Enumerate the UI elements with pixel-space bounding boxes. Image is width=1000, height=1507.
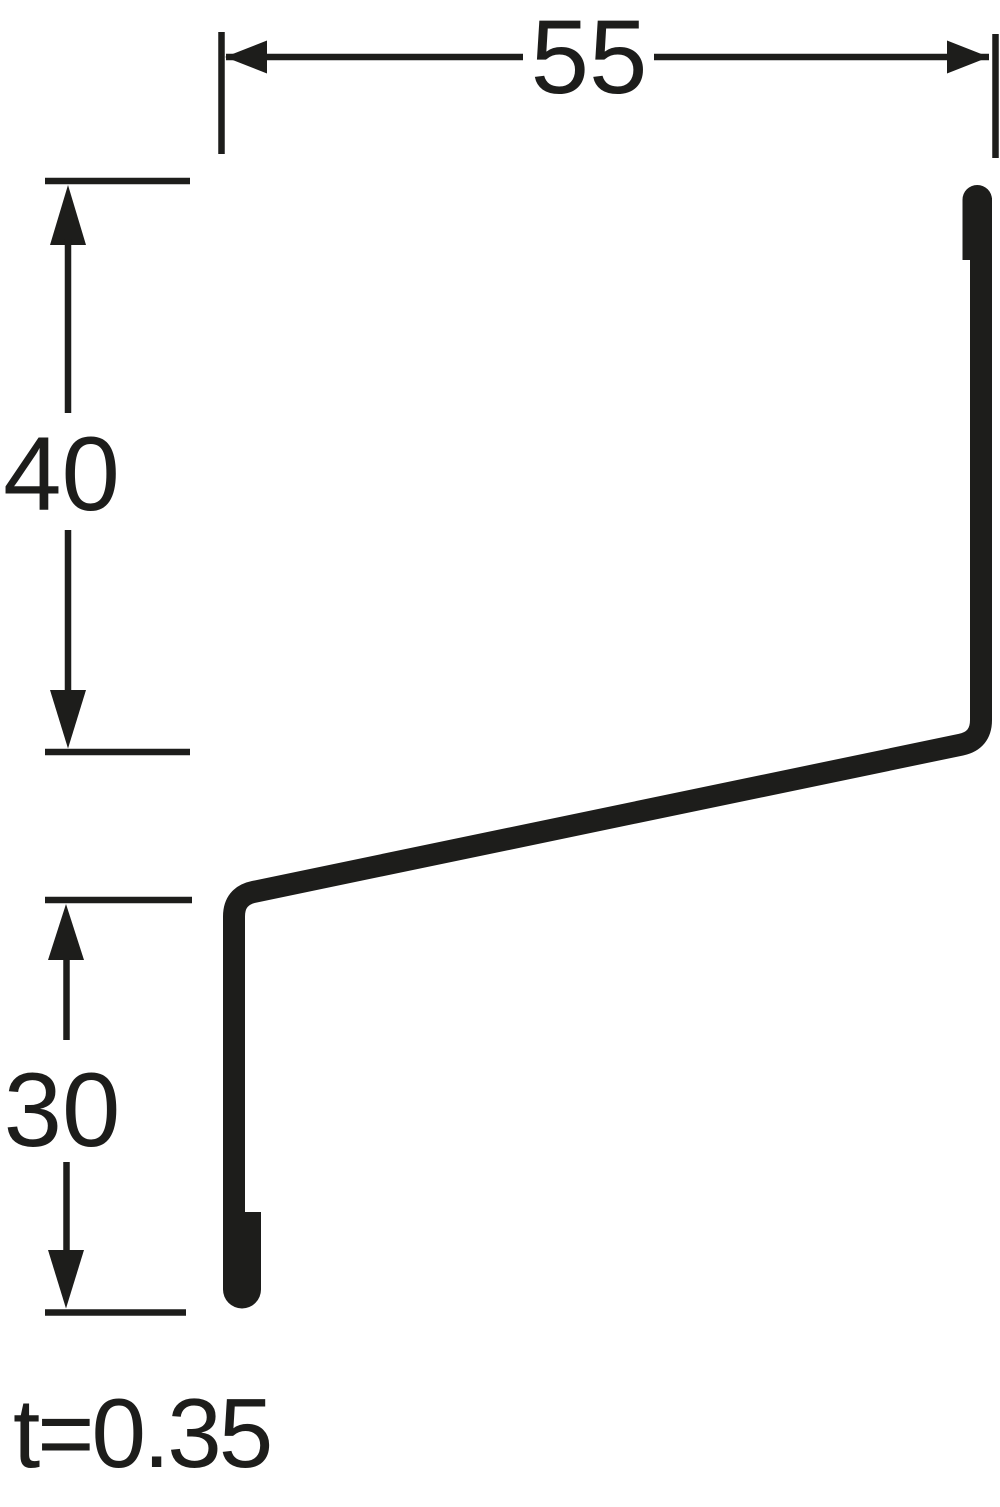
- arrowhead 40 down: [50, 690, 86, 749]
- tick bottom (30 dim): [45, 1309, 186, 1316]
- svg-text:t=0.35: t=0.35: [13, 1378, 270, 1488]
- dimension line 40 upper segment: [65, 239, 72, 413]
- dimension line 55 right segment: [654, 54, 989, 61]
- extension line left (55 dim): [218, 32, 225, 154]
- extension line right (55 dim): [992, 34, 999, 158]
- dimension line 40 lower segment: [65, 530, 72, 696]
- svg-text:30: 30: [4, 1052, 121, 1169]
- tick top (30 dim): [45, 897, 192, 904]
- svg-text:55: 55: [531, 0, 648, 116]
- arrowhead 55 right: [947, 41, 989, 74]
- arrowhead 40 up: [50, 185, 86, 245]
- arrowhead 30 down: [48, 1250, 84, 1309]
- profile main outline (Z-flashing cross-section): [234, 198, 981, 1280]
- svg-text:40: 40: [3, 416, 120, 533]
- dimension line 30 lower segment: [63, 1162, 70, 1256]
- arrowhead 55 left: [225, 41, 267, 74]
- dimension line 30 upper segment: [63, 958, 70, 1040]
- arrowhead 30 up: [48, 904, 84, 960]
- dimension line 55 left segment: [226, 54, 523, 61]
- tick top (40 dim): [45, 178, 190, 185]
- hem fold bottom left: [223, 1212, 261, 1309]
- hem fold top right: [963, 185, 993, 260]
- tick bottom (40 dim): [45, 749, 190, 756]
